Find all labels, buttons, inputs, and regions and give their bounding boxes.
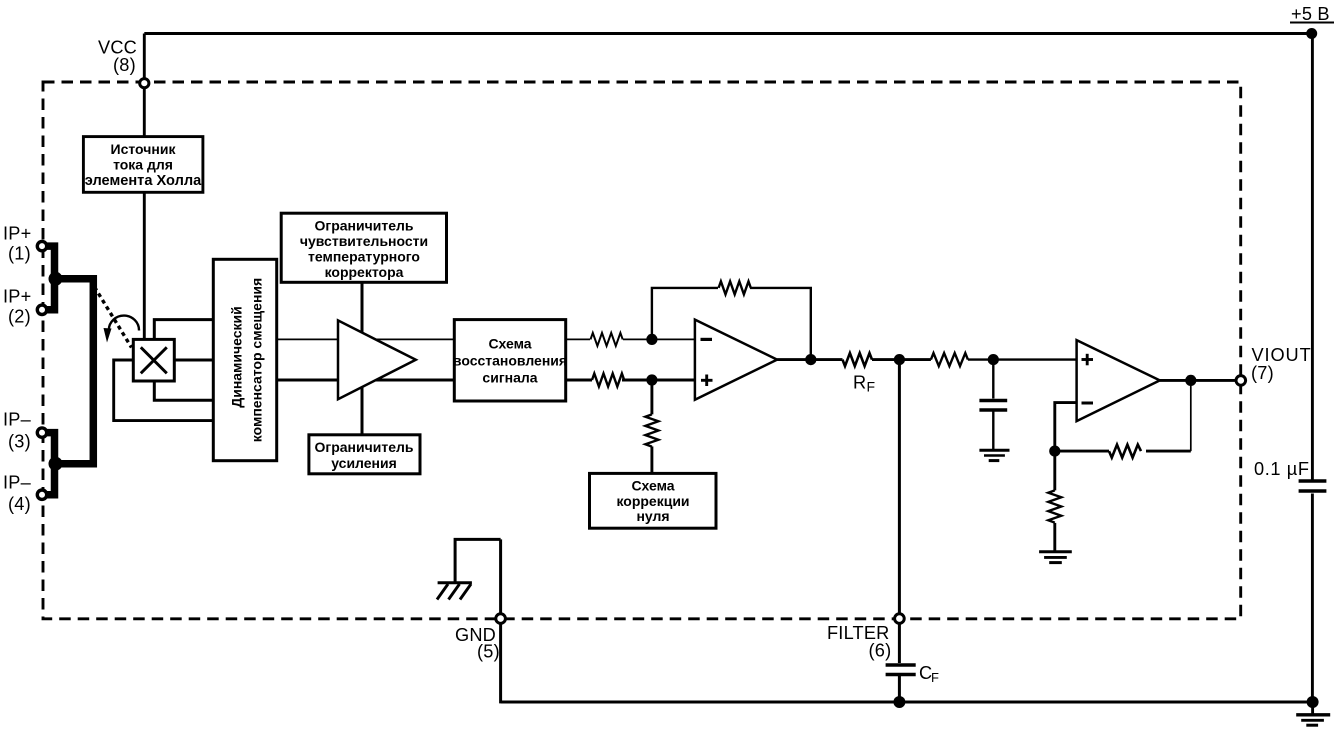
chopper dashed arrow <box>95 287 132 348</box>
pin FILTER (6) <box>827 614 904 661</box>
wire zero-correction upper <box>650 380 653 414</box>
resistor upper chain <box>591 333 623 346</box>
wire hall bottom to compensator <box>154 381 214 400</box>
op-amp U2 <box>1077 340 1160 421</box>
svg-text:VIOUT: VIOUT <box>1252 345 1312 365</box>
wire lower to U1 plus <box>622 379 695 382</box>
wire divider to ground <box>1053 523 1056 551</box>
wire compensator out lower <box>276 379 454 382</box>
svg-text:температурного: температурного <box>308 249 420 265</box>
pin IP- (4) <box>3 473 32 515</box>
chopper arrowhead <box>104 328 112 343</box>
wire GND top loop <box>455 539 501 614</box>
node FILTER junction <box>894 354 905 365</box>
node bottom-right junction <box>1307 696 1319 708</box>
wire U1 feedback loop <box>652 288 811 360</box>
resistor divider <box>1048 490 1061 522</box>
wire bottom rail <box>501 701 1313 704</box>
block gain limiter <box>309 435 420 474</box>
svg-text:(1): (1) <box>8 244 31 264</box>
wire thick conductor loop <box>56 279 94 464</box>
chopper rotation arc <box>109 316 139 331</box>
wire recovery upper out (thin) <box>566 338 590 340</box>
capacitor shunt <box>979 401 1007 411</box>
pin VIOUT (7) <box>1236 345 1312 385</box>
node U1 plus junction <box>646 374 657 385</box>
wire U2 output <box>1160 379 1236 382</box>
IC boundary dashed <box>43 82 1241 619</box>
wire hall left wrap to compensator <box>114 360 215 421</box>
pin VCC (8) <box>98 38 149 88</box>
svg-text:Схема: Схема <box>631 478 674 494</box>
wire CF to bottom rail <box>898 676 901 702</box>
block dynamic offset compensator <box>213 259 276 460</box>
node IP+ junction <box>49 272 63 286</box>
wire U2 feedback to minus <box>1055 403 1109 452</box>
resistor zero-correction <box>645 414 658 446</box>
node shunt cap junction <box>988 354 999 365</box>
terminal IP+ (2) <box>37 305 46 314</box>
svg-text:(7): (7) <box>1251 363 1274 383</box>
wire GND pin to bottom rail <box>499 623 502 703</box>
pin IP+ (1) <box>3 224 31 264</box>
resistor filter to U2 <box>931 353 968 366</box>
capacitor CF <box>886 665 916 675</box>
wire right +5V rail <box>1311 34 1314 703</box>
ground bottom-right <box>1296 702 1330 725</box>
svg-text:Динамический: Динамический <box>229 306 245 408</box>
wire RF to filter node <box>872 358 931 361</box>
wire zero-correction lower <box>650 446 653 473</box>
op-amp U1 <box>695 320 777 400</box>
svg-text:+5 В: +5 В <box>1291 4 1330 24</box>
wire VCC riser <box>143 34 146 80</box>
resistor lower chain <box>592 374 624 387</box>
label CF <box>919 663 939 685</box>
pin IP+ (2) <box>3 287 31 327</box>
terminal IP- (4) <box>37 490 46 499</box>
wire VCC to current source <box>143 87 146 137</box>
label RF <box>853 373 875 395</box>
wire filter node down <box>898 360 901 615</box>
svg-text:(4): (4) <box>8 494 31 514</box>
svg-text:0.1 µF: 0.1 µF <box>1254 459 1310 479</box>
wire recovery lower out <box>566 379 592 382</box>
node U1 output junction <box>805 354 816 365</box>
terminal IP- (3) <box>37 428 46 437</box>
ground chassis <box>437 583 472 600</box>
hall element X <box>133 339 174 381</box>
wire shunt cap lower <box>992 412 994 450</box>
svg-text:IP+: IP+ <box>3 287 31 307</box>
ground shunt cap <box>979 450 1009 460</box>
capacitor 0.1uF <box>1297 480 1327 494</box>
svg-text:сигнала: сигнала <box>482 370 537 386</box>
svg-text:нуля: нуля <box>636 508 669 524</box>
svg-text:R: R <box>853 373 866 393</box>
ground divider <box>1039 552 1072 563</box>
terminal IP+ (1) <box>37 241 46 250</box>
pin IP- (3) <box>3 410 32 452</box>
pin GND (5) <box>455 614 505 662</box>
block U-current-source for Hall element <box>83 137 202 193</box>
wire temp-corrector through amp to gain-limiter <box>361 282 364 435</box>
svg-text:коррекции: коррекции <box>616 493 689 509</box>
node top-right junction <box>1306 28 1317 39</box>
wire U2 feedback down <box>1190 380 1192 451</box>
resistor U1 feedback <box>719 281 751 294</box>
svg-text:IP+: IP+ <box>3 224 31 244</box>
block zero correction <box>590 473 717 528</box>
wire current source to hall element <box>143 192 146 339</box>
wire to U2 plus input <box>968 358 1077 360</box>
amplifier A1 <box>338 320 416 399</box>
wire compensator out upper (thin) <box>276 338 454 340</box>
wire top +5V rail <box>144 32 1312 35</box>
svg-text:Схема: Схема <box>488 336 531 352</box>
wire thick conductor IP+ bar <box>45 246 55 310</box>
block signal recovery <box>453 320 567 401</box>
resistor RF <box>843 353 873 366</box>
svg-text:компенсатор смещения: компенсатор смещения <box>249 278 265 442</box>
wire hall right to compensator <box>174 359 214 362</box>
svg-text:(3): (3) <box>8 432 31 452</box>
svg-text:(2): (2) <box>8 307 31 327</box>
wire thick conductor IP- bar <box>45 433 55 495</box>
node U2 feedback junction <box>1049 446 1060 457</box>
svg-text:IP–: IP– <box>3 473 32 493</box>
svg-text:Ограничитель: Ограничитель <box>315 439 414 455</box>
wire upper to U1 minus (thin) <box>623 338 695 340</box>
net +5V label <box>1290 4 1334 24</box>
wire shunt cap upper <box>992 360 994 399</box>
svg-text:корректора: корректора <box>325 264 404 280</box>
block temperature corrector sensitivity limiter <box>281 213 446 282</box>
svg-text:(6): (6) <box>869 641 892 661</box>
node IP- junction <box>49 457 63 471</box>
resistor U2 feedback <box>1109 445 1141 458</box>
node bottom rail junction <box>893 696 905 708</box>
svg-text:IP–: IP– <box>3 410 32 430</box>
wire divider down <box>1053 451 1056 490</box>
svg-text:Источник: Источник <box>111 141 177 157</box>
wire FILTER pin to CF <box>898 623 901 663</box>
svg-text:восстановления: восстановления <box>453 353 567 369</box>
svg-text:тока для: тока для <box>113 157 173 173</box>
wire U1 output <box>777 358 842 361</box>
node U1 minus junction <box>646 334 657 345</box>
svg-text:F: F <box>867 379 876 395</box>
svg-text:(5): (5) <box>477 642 500 662</box>
node U2 output junction <box>1185 375 1196 386</box>
svg-text:чувствительности: чувствительности <box>300 233 428 249</box>
svg-text:усиления: усиления <box>331 455 397 471</box>
wire hall top to compensator <box>154 320 214 340</box>
svg-text:(8): (8) <box>113 55 136 75</box>
svg-text:Ограничитель: Ограничитель <box>315 218 414 234</box>
svg-text:F: F <box>931 670 939 685</box>
svg-text:элемента Холла: элемента Холла <box>85 173 202 189</box>
